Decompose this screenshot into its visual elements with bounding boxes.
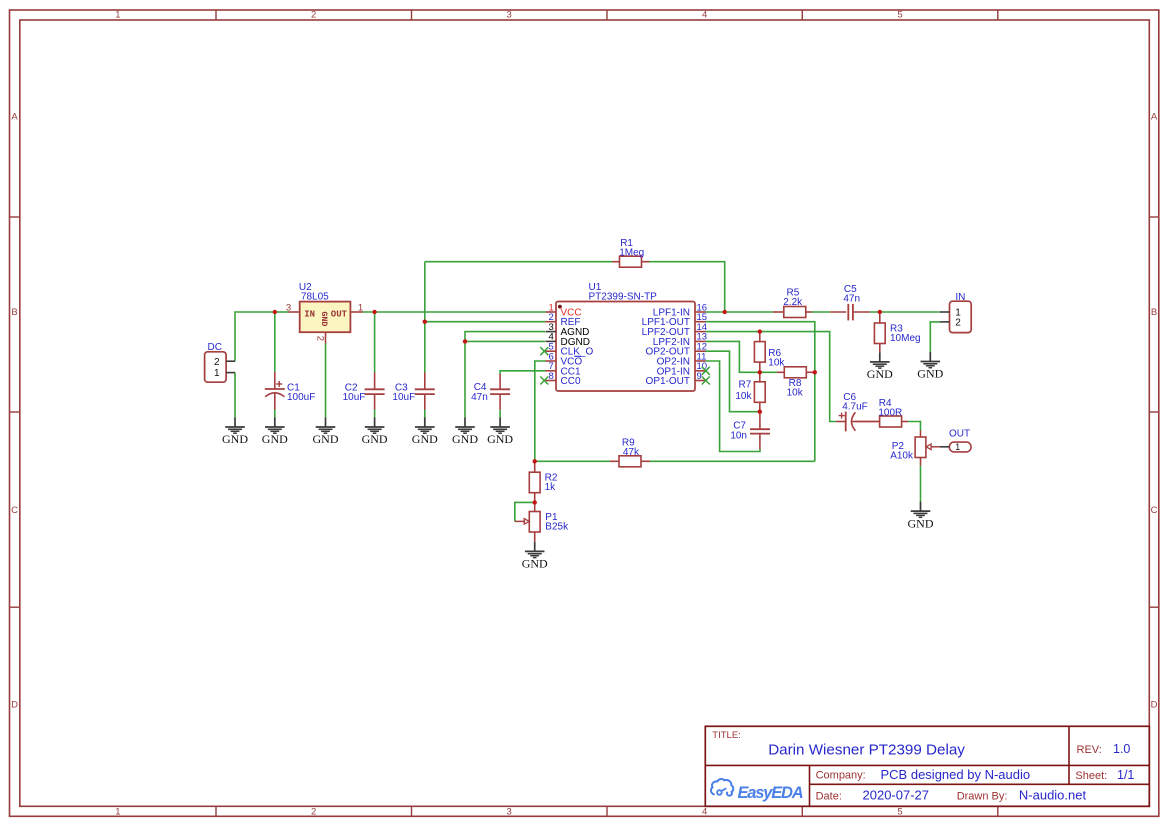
no-connect X pin10 (702, 367, 710, 375)
R8 reference label (789, 378, 802, 389)
IN reference label (955, 292, 965, 303)
U2 OUT pin name (331, 310, 348, 320)
svg-text:3: 3 (507, 807, 512, 818)
wire C2 bottom to GND (374, 410, 376, 418)
R1 reference label (620, 238, 633, 249)
P1 reference label (545, 512, 558, 523)
wire R1 left vertical to REF and C3 (424, 262, 426, 373)
R8 value 10k (787, 387, 804, 398)
C1 reference label (287, 382, 300, 393)
svg-text:2: 2 (311, 10, 316, 21)
frame row tick marks (10, 217, 1159, 607)
frame column labels bottom (115, 807, 902, 818)
wire P2 bottom to GND (920, 466, 922, 502)
ground DC (222, 417, 248, 446)
Company value PCB designed by N-audio (881, 767, 1031, 782)
C4 reference label (474, 382, 487, 393)
R5 value 2.2k (783, 297, 803, 308)
svg-text:Date:: Date: (816, 790, 842, 802)
R3 value 10Meg (890, 333, 921, 344)
svg-text:100R: 100R (878, 408, 902, 419)
U2 pin1 lead (350, 311, 362, 313)
C3 value 10uF (392, 392, 415, 403)
frame row labels left (11, 111, 18, 710)
capacitor C5 47n (830, 304, 870, 321)
svg-text:2: 2 (311, 807, 316, 818)
junction rail C1 (273, 310, 277, 314)
svg-text:Drawn By:: Drawn By: (957, 790, 1008, 802)
svg-text:1: 1 (115, 10, 120, 21)
svg-text:1/1: 1/1 (1117, 768, 1134, 782)
svg-text:A10k: A10k (890, 450, 914, 461)
svg-text:GND: GND (522, 557, 548, 571)
wire OP2-IN pin11 to C7 bottom (706, 361, 761, 452)
svg-text:1: 1 (955, 442, 960, 452)
title block logo cell divider (809, 765, 811, 806)
resistor R7 10k (754, 372, 765, 411)
svg-text:A: A (11, 111, 18, 122)
U1 right pins 16-9 with names (642, 302, 707, 387)
wire VCO pin6 down to R9 node (535, 361, 546, 461)
wire REF pin2 to C3 junction (425, 321, 546, 323)
R6 reference label (768, 348, 781, 359)
wire R9 right segment (650, 460, 815, 462)
U1 VCO overline (574, 355, 581, 357)
svg-text:1Meg: 1Meg (619, 248, 644, 259)
R7 value 10k (735, 391, 752, 402)
IN pin2 number (955, 318, 961, 329)
wire CC1 pin7 to C4 (500, 371, 545, 374)
resistor R9 47k (610, 456, 650, 467)
U2 pin1 number (358, 302, 363, 313)
wire OP2-OUT pin12 to R7/C7 node (706, 351, 760, 412)
svg-text:B25k: B25k (545, 522, 569, 533)
C4 value 47n (471, 392, 488, 403)
svg-text:100uF: 100uF (287, 392, 315, 403)
junction R6 R7 R8 (758, 370, 762, 374)
svg-text:10uF: 10uF (343, 392, 366, 403)
U2 pin2 number (315, 336, 326, 341)
svg-text:OUT: OUT (331, 310, 348, 320)
svg-text:EasyEDA: EasyEDA (738, 784, 803, 802)
resistor R5 2.2k (773, 307, 812, 318)
resistor R2 1k (529, 461, 540, 502)
OUT pin1 stub (940, 446, 950, 448)
svg-text:OP1-OUT: OP1-OUT (646, 376, 690, 387)
wire DC pin1 to GND (234, 373, 236, 418)
svg-text:REV:: REV: (1077, 744, 1102, 756)
U2 IN pin name (304, 310, 315, 320)
connector OUT body (949, 442, 971, 452)
wire C1 top from rail (274, 312, 276, 372)
ground P1 (522, 542, 548, 571)
junction R8 pin15 vertical (813, 370, 817, 374)
svg-text:GND: GND (362, 432, 388, 446)
DC pin1 number (214, 368, 220, 379)
svg-text:CC0: CC0 (561, 376, 581, 387)
no-connect X pin5 (540, 347, 548, 355)
wire R5 to C5 (812, 311, 830, 313)
svg-text:DC: DC (208, 342, 222, 353)
R4 value 100R (878, 408, 902, 419)
junction R2 P1 (533, 500, 537, 504)
junction AGND DGND (463, 339, 467, 343)
svg-text:2: 2 (315, 336, 326, 341)
svg-text:10k: 10k (768, 357, 785, 368)
R1 value 1Meg (619, 248, 644, 259)
title text Darin Wiesner PT2399 Delay (768, 741, 965, 758)
R9 reference label (622, 438, 635, 449)
frame column labels top (115, 10, 902, 21)
potentiometer P2 A10k (915, 431, 940, 466)
junction pin14 R6 (758, 329, 762, 333)
U1 pin1 indicator dot (558, 305, 562, 309)
svg-text:47k: 47k (623, 447, 640, 458)
svg-text:47n: 47n (843, 294, 860, 305)
IN pin1 number (955, 308, 961, 319)
svg-text:GND: GND (917, 367, 943, 381)
svg-text:10Meg: 10Meg (890, 333, 921, 344)
no-connect X pin8 (540, 377, 548, 385)
svg-text:C: C (1151, 505, 1158, 516)
wire DGND pin4 (465, 340, 545, 342)
C7 value 10n (730, 430, 747, 441)
svg-text:B: B (1151, 307, 1157, 318)
R9 value 47k (623, 447, 640, 458)
U2 pin2 lead (325, 332, 327, 343)
svg-text:47n: 47n (471, 392, 488, 403)
R6 value 10k (768, 357, 785, 368)
ground R3 (867, 352, 893, 381)
svg-text:4.7uF: 4.7uF (842, 402, 868, 413)
junction C5 R3 IN (878, 310, 882, 314)
svg-text:GND: GND (319, 311, 329, 326)
svg-text:3: 3 (507, 10, 512, 21)
U1 value PT2399-SN-TP (589, 292, 658, 303)
U1 left pins 1-8 with names (546, 302, 594, 387)
op-amp U1 body PT2399-SN-TP (556, 302, 695, 392)
DC reference label (208, 342, 222, 353)
svg-text:2: 2 (214, 357, 220, 368)
C5 value 47n (843, 294, 860, 305)
C2 value 10uF (343, 392, 366, 403)
EasyEDA logo (711, 779, 803, 802)
svg-text:D: D (1151, 699, 1158, 710)
junction rail C2 (372, 310, 376, 314)
wire LPF2-IN pin13 to R6/R8 node (706, 341, 778, 372)
wire R4 to P2 top (908, 422, 921, 431)
P2 value A10k (890, 450, 914, 461)
junction pin16 R1 (723, 310, 727, 314)
svg-text:GND: GND (262, 432, 288, 446)
C7 reference label (733, 420, 746, 431)
Date value 2020-07-27 (863, 787, 930, 802)
C6 value 4.7uF (842, 402, 868, 413)
C1 value 100uF (287, 392, 315, 403)
U2 pin3 lead (289, 311, 300, 313)
svg-text:10k: 10k (787, 387, 804, 398)
Drawn By label (957, 790, 1008, 802)
regulator U2 78L05 body (300, 302, 351, 333)
resistor R1 1Meg (612, 256, 650, 267)
wire R1 top left segment (425, 261, 612, 263)
svg-text:1: 1 (115, 807, 120, 818)
title block rev cell divider (1068, 726, 1070, 784)
svg-text:GND: GND (452, 432, 478, 446)
svg-text:10k: 10k (735, 391, 752, 402)
REV label (1077, 744, 1102, 756)
svg-text:1.0: 1.0 (1113, 742, 1130, 756)
resistor R4 100R (855, 416, 909, 427)
capacitor C7 10n (750, 412, 770, 449)
DC pin2 stub (226, 360, 235, 362)
svg-text:D: D (11, 699, 18, 710)
R3 reference label (890, 324, 903, 335)
svg-text:PCB designed by N-audio: PCB designed by N-audio (881, 767, 1031, 782)
R7 reference label (739, 380, 752, 391)
svg-text:GND: GND (412, 432, 438, 446)
wire LPF2-OUT pin14 to C6 (706, 332, 837, 422)
resistor R8 10k (777, 367, 815, 378)
svg-text:R7: R7 (739, 380, 752, 391)
ground C4 (487, 417, 513, 446)
capacitor C6 4.7uF polarized (836, 412, 880, 432)
svg-text:GND: GND (313, 432, 339, 446)
svg-text:1: 1 (358, 302, 363, 313)
wire R1 right segment (650, 262, 725, 312)
ground C1 (262, 417, 288, 446)
wire LPF1-IN pin16 to R5 (706, 311, 774, 313)
junction VCO R9 R2 (533, 459, 537, 463)
svg-text:IN: IN (304, 310, 315, 320)
title block row divider under title (705, 764, 1149, 766)
Company label (816, 770, 866, 782)
IN pin1 stub (940, 311, 950, 313)
REV value 1.0 (1113, 742, 1130, 756)
svg-text:C: C (11, 505, 18, 516)
svg-text:1k: 1k (545, 482, 557, 493)
frame row labels right (1151, 111, 1158, 710)
svg-text:N-audio.net: N-audio.net (1019, 787, 1087, 802)
U1 reference label (589, 282, 602, 293)
svg-text:5: 5 (897, 10, 902, 21)
resistor R6 10k (754, 332, 765, 373)
title block outline (705, 726, 1149, 806)
wire R9 left segment (535, 460, 610, 462)
DC pin2 number (214, 357, 220, 368)
svg-text:4: 4 (702, 10, 707, 21)
svg-text:IN: IN (955, 292, 965, 303)
svg-text:Sheet:: Sheet: (1075, 770, 1107, 782)
wire C2 top from rail (374, 312, 376, 373)
svg-text:5: 5 (897, 807, 902, 818)
Sheet value 1/1 (1117, 768, 1134, 782)
C2 reference label (345, 382, 358, 393)
DC pin1 stub (226, 372, 235, 374)
OUT reference label (949, 428, 970, 439)
U2 reference label (299, 282, 312, 293)
svg-text:4: 4 (702, 807, 707, 818)
no-connect X pin9 (702, 377, 710, 385)
svg-text:10uF: 10uF (392, 392, 415, 403)
svg-text:PT2399-SN-TP: PT2399-SN-TP (589, 292, 658, 303)
wire U2 GND pin to ground (325, 344, 327, 418)
resistor R3 10Meg (874, 312, 885, 352)
junction R7 C7 pin12 (758, 410, 762, 414)
Drawn By value N-audio.net (1019, 787, 1087, 802)
P2 reference label (892, 441, 905, 452)
svg-text:GND: GND (908, 516, 934, 530)
wire rail C1 junction to U2 IN lead (275, 311, 289, 313)
ground C3 (412, 417, 438, 446)
svg-text:TITLE:: TITLE: (712, 730, 741, 741)
capacitor C1 100uF polarized (265, 372, 285, 410)
capacitor C3 10uF (415, 373, 435, 410)
svg-text:GND: GND (222, 432, 248, 446)
frame column tick marks (216, 10, 998, 816)
wire AGND pin3 (465, 332, 545, 418)
svg-text:2.2k: 2.2k (783, 297, 803, 308)
C3 reference label (395, 382, 408, 393)
title block TITLE label (712, 730, 741, 741)
R5 reference label (787, 287, 800, 298)
svg-text:8: 8 (549, 371, 554, 382)
U2 pin3 number (286, 302, 291, 313)
svg-text:GND: GND (867, 367, 893, 381)
wire R2 bottom to P1 wiper (515, 502, 535, 521)
connector DC body (205, 352, 227, 382)
title block row divider under company (810, 783, 1150, 785)
wire LPF1-OUT pin15 down to R9 right (706, 322, 815, 462)
wire U2 OUT to U1 VCC (363, 311, 546, 313)
svg-text:2020-07-27: 2020-07-27 (863, 787, 930, 802)
Date label (816, 790, 842, 802)
potentiometer P1 B25k (515, 502, 540, 541)
wire C5 to IN pin1 (870, 311, 940, 313)
svg-text:1: 1 (214, 368, 220, 379)
wire C4 bottom to GND (499, 410, 501, 418)
junction REF C3 (423, 320, 427, 324)
svg-text:2: 2 (955, 318, 961, 329)
svg-text:9: 9 (697, 371, 702, 382)
C6 reference label (843, 392, 856, 403)
ground IN (917, 352, 943, 381)
IN pin2 stub (940, 321, 950, 323)
svg-text:OUT: OUT (949, 428, 970, 439)
wire DC pin2 to +9V rail (235, 312, 275, 361)
Sheet label (1075, 770, 1107, 782)
svg-text:Darin Wiesner PT2399 Delay: Darin Wiesner PT2399 Delay (768, 741, 965, 758)
ground AGND DGND (452, 417, 478, 446)
C5 reference label (844, 284, 857, 295)
svg-text:GND: GND (487, 432, 513, 446)
svg-text:78L05: 78L05 (301, 292, 329, 303)
capacitor C4 47n (490, 374, 510, 410)
R2 value 1k (545, 482, 557, 493)
wire C1 bottom to GND (274, 410, 276, 418)
svg-text:10n: 10n (730, 430, 747, 441)
wire IN pin2 to GND (930, 322, 940, 352)
svg-text:A: A (1151, 111, 1158, 122)
connector IN body (950, 301, 972, 332)
ground U2 (313, 417, 339, 446)
svg-text:B: B (11, 307, 17, 318)
ground C2 (362, 417, 388, 446)
U2 value 78L05 (301, 292, 329, 303)
wire C3 bottom to GND (424, 410, 426, 418)
P1 value B25k (545, 522, 569, 533)
R2 reference label (545, 472, 558, 483)
U2 GND pin name (319, 311, 329, 326)
R4 reference label (879, 398, 892, 409)
OUT pin1 number (955, 442, 960, 452)
svg-text:Company:: Company: (816, 770, 866, 782)
ground P2 (908, 502, 934, 531)
capacitor C2 10uF (365, 373, 385, 410)
svg-text:3: 3 (286, 302, 291, 313)
